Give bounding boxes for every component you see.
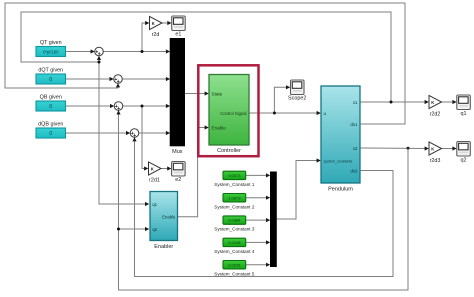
mux Mux (4-input) (170, 38, 185, 155)
svg-text:+: + (117, 79, 120, 85)
svg-text:dx2: dx2 (350, 168, 358, 173)
wire: System_Constant2 to Mux1 (246, 196, 271, 200)
wire: pendulum out1 to gain r2d2 (360, 100, 429, 104)
wire: Mux output to Controller State (185, 91, 209, 95)
wire: dx2 feedback (pendulum out4 to Sum4) (132, 136, 393, 277)
svg-text:K: K (431, 146, 434, 151)
wire: Controller output to Pendulum u and Scope2 (249, 85, 321, 115)
scope e2 (172, 162, 186, 184)
svg-text:QB given: QB given (40, 95, 62, 101)
wire: x2 feedback (to Sum3 and Enabler) (116, 109, 408, 290)
sum junction Sum3 (114, 102, 123, 113)
wire: gain r2d2 to scope q1 (442, 100, 457, 104)
svg-text:0: 0 (49, 77, 52, 83)
scope e1 (172, 16, 186, 38)
svg-text:system_constants: system_constants (324, 159, 353, 163)
wire: System_Constant4 to Mux1 (246, 240, 271, 244)
constant block dQT given (36, 68, 66, 85)
wire: Sum1 output to Mux (103, 49, 170, 53)
wire: System_Constant3 to Mux1 (246, 218, 271, 222)
svg-text:0.0076: 0.0076 (228, 262, 241, 267)
wire: pendulum out3 to gain r2d3 (360, 146, 429, 150)
gain r2d3 (429, 142, 442, 164)
wire: Sum3 output to Mux (123, 104, 170, 108)
mux Mux1 (5-input) (270, 172, 277, 268)
svg-text:Pendulum: Pendulum (328, 187, 353, 193)
wire: error1 branch up to gain r2d (141, 21, 150, 53)
svg-text:0.0384: 0.0384 (228, 218, 241, 223)
svg-text:e2: e2 (175, 177, 181, 183)
constant System_Constant1 (214, 171, 255, 187)
svg-text:Mux: Mux (172, 149, 183, 155)
constant System_Constant5 (214, 261, 255, 277)
subsystem Controller (209, 75, 249, 155)
gain r2d2 (429, 95, 442, 117)
constant block dQB given (36, 122, 66, 139)
svg-text:r2d: r2d (152, 32, 160, 38)
scope q2 (457, 142, 471, 164)
wire: source block 1 to Sum1 (66, 49, 95, 53)
svg-text:dx1: dx1 (350, 122, 358, 127)
svg-text:+: + (98, 52, 101, 58)
svg-text:q2: q2 (152, 227, 157, 232)
red highlight rectangle around Controller (198, 65, 258, 156)
svg-text:System_Constant 5: System_Constant 5 (214, 271, 255, 276)
wire: System_Constant5 to Mux1 (246, 263, 271, 267)
constant System_Constant2 (214, 194, 255, 210)
wire: gain r2d3 to scope q2 (442, 146, 457, 150)
svg-text:0.0073: 0.0073 (228, 173, 241, 178)
svg-text:System_Constant 4: System_Constant 4 (214, 249, 255, 254)
sum junction Sum2 (114, 75, 123, 86)
svg-text:q2: q2 (461, 157, 467, 163)
gain r2d1 (149, 162, 162, 184)
wire: Mux1 output to Pendulum system_constants (277, 158, 321, 219)
svg-text:Scope2: Scope2 (288, 96, 306, 102)
wire: source block 3 to Sum3 (66, 104, 115, 108)
subsystem Pendulum (321, 86, 360, 193)
svg-text:q1: q1 (461, 111, 467, 117)
wire: source block 4 to Sum4 (66, 131, 131, 135)
svg-text:0*pi/180: 0*pi/180 (43, 49, 59, 54)
svg-text:K: K (151, 166, 154, 171)
constant System_Constant4 (214, 238, 255, 254)
svg-text:x1: x1 (353, 100, 358, 105)
wire: gain r2d1 to scope e2 (161, 166, 171, 170)
svg-text:r2d3: r2d3 (430, 158, 441, 164)
wire: Sum2 output to Mux (122, 77, 170, 81)
svg-text:e1: e1 (175, 32, 181, 38)
svg-text:u: u (324, 111, 327, 116)
svg-text:0: 0 (49, 104, 52, 110)
wire: x1 feedback (pendulum out1 to Sum1 and Enabler) (21, 12, 391, 206)
wire: dx1 feedback (pendulum out2 to Sum2) (5, 3, 405, 124)
scope Scope2 (288, 80, 306, 102)
wire: error3 branch down to gain r2d1 (141, 105, 149, 171)
svg-text:+: + (133, 133, 136, 139)
svg-text:+: + (117, 106, 120, 112)
svg-text:Controller: Controller (217, 148, 241, 154)
scope q1 (457, 95, 471, 117)
svg-text:r2d2: r2d2 (430, 112, 441, 118)
subsystem Enabler (150, 192, 178, 251)
sum junction Sum1 (95, 47, 104, 58)
svg-text:Enabler: Enabler (154, 244, 173, 250)
svg-text:System_Constant 3: System_Constant 3 (214, 227, 255, 232)
svg-text:0: 0 (49, 131, 52, 137)
constant block QB given (36, 95, 66, 112)
wire: Enabler output to Controller Enable (178, 125, 209, 216)
svg-text:1.0873: 1.0873 (228, 195, 241, 200)
wire: gain r2d to scope e1 (162, 21, 172, 25)
svg-text:K: K (431, 100, 434, 105)
svg-text:0.2248: 0.2248 (228, 240, 241, 245)
sum junction Sum4 (130, 129, 139, 140)
svg-text:dQT given: dQT given (38, 68, 63, 74)
gain r2d (150, 16, 163, 38)
svg-text:QT given: QT given (40, 40, 62, 46)
svg-text:dQB given: dQB given (38, 122, 63, 128)
svg-text:State: State (212, 91, 223, 96)
svg-text:x2: x2 (353, 146, 358, 151)
svg-text:System_Constant 1: System_Constant 1 (214, 182, 255, 187)
svg-text:Control Signal: Control Signal (220, 111, 246, 116)
svg-text:System_Constant 2: System_Constant 2 (214, 204, 255, 209)
wire: System_Constant1 to Mux1 (246, 173, 271, 177)
wire: source block 2 to Sum2 (66, 77, 114, 81)
constant block QT given (36, 40, 66, 57)
svg-text:q1: q1 (152, 202, 157, 207)
constant System_Constant3 (214, 216, 255, 232)
svg-text:Enable: Enable (162, 215, 176, 220)
svg-text:r2d1: r2d1 (149, 178, 160, 184)
svg-text:Enable: Enable (212, 125, 227, 130)
svg-text:K: K (152, 21, 155, 26)
wire: Sum4 output to Mux (139, 131, 170, 135)
